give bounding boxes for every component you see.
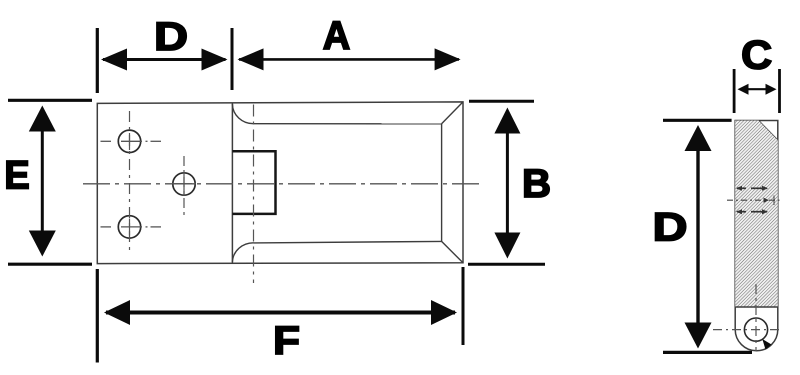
dimension E extension line top bbox=[8, 99, 92, 102]
socket chamfer top bbox=[442, 102, 463, 124]
side view hole horizontal centerline bbox=[713, 329, 779, 331]
dimension A arrow line bbox=[238, 48, 461, 70]
socket step vertical edge bbox=[231, 103, 233, 263]
socket chamfer bottom bbox=[442, 241, 463, 262]
hole H2 center bbox=[173, 173, 195, 195]
dimension B extension line top bbox=[469, 100, 534, 103]
hole H1 top-left bbox=[118, 130, 140, 152]
front view plate outline bbox=[97, 102, 463, 264]
socket inner right edge bbox=[441, 124, 443, 242]
dimension B arrow line bbox=[494, 108, 520, 259]
dimension E arrow line bbox=[29, 106, 56, 257]
svg-text:D: D bbox=[653, 206, 688, 250]
hole H3 bottom-left bbox=[118, 216, 140, 238]
crosshair H1 bbox=[101, 133, 162, 150]
dimension D arrow line bbox=[101, 49, 228, 71]
side view bottom hole bbox=[744, 318, 767, 341]
leader arrow at hole bbox=[762, 339, 771, 350]
notch tab outline bbox=[232, 151, 275, 214]
dimension D extension line left bbox=[96, 28, 99, 93]
crosshair H3 bbox=[101, 219, 162, 236]
dimension F arrow line bbox=[104, 300, 457, 325]
svg-text:A: A bbox=[323, 14, 351, 58]
side view chamfer edge bbox=[759, 121, 778, 141]
dimension C extension line right bbox=[778, 69, 781, 113]
dimension B extension line bottom bbox=[468, 263, 545, 266]
dimension D extension line right bbox=[231, 28, 234, 90]
svg-text:E: E bbox=[4, 154, 30, 198]
socket fillet bottom bbox=[232, 243, 253, 262]
thread detail top line bbox=[736, 186, 768, 191]
dimension C extension line left bbox=[733, 69, 736, 113]
thread detail centerline bbox=[727, 196, 780, 206]
socket fillet top bbox=[232, 104, 253, 124]
dimension E extension line bottom bbox=[8, 263, 92, 266]
side view hatch area bbox=[735, 121, 778, 308]
svg-text:B: B bbox=[522, 162, 551, 206]
dimension F extension line right bbox=[462, 267, 465, 345]
dimension F extension line left bbox=[96, 269, 99, 363]
svg-text:D: D bbox=[154, 15, 188, 59]
side view body outline bbox=[735, 121, 778, 351]
socket inner top edge bbox=[254, 123, 442, 125]
dimension D side extension line bottom bbox=[663, 351, 752, 354]
thread detail bottom line bbox=[736, 209, 768, 214]
dimension D side arrow line bbox=[685, 125, 712, 349]
dimension C arrow line bbox=[738, 84, 777, 95]
svg-text:C: C bbox=[741, 34, 772, 78]
side view vertical centerline bbox=[755, 284, 757, 351]
dimension D side extension line top bbox=[663, 119, 732, 122]
vertical centerline through center hole bbox=[183, 156, 185, 216]
vertical centerline through left holes bbox=[129, 111, 131, 253]
vertical dash-dot centerline at notch bbox=[253, 105, 255, 284]
socket inner bottom edge bbox=[254, 241, 442, 243]
main horizontal centerline bbox=[83, 183, 479, 185]
svg-text:F: F bbox=[273, 319, 300, 363]
crosshair H2 bbox=[172, 172, 196, 196]
side view hatch boundary line bbox=[735, 306, 778, 308]
